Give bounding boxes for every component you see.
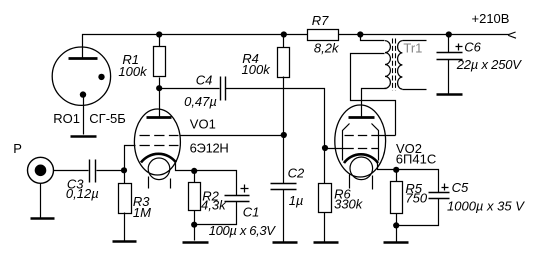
wire cathode node to C1 top <box>195 171 237 196</box>
capacitor C6 polarized <box>437 53 463 60</box>
wire R6 top <box>324 149 326 184</box>
tube VO2 cathode <box>344 154 378 163</box>
wire primary UL tap to VO2 screen <box>351 54 396 136</box>
svg-text:100k: 100k <box>118 64 148 79</box>
svg-text:+210В: +210В <box>472 11 510 26</box>
svg-text:C2: C2 <box>288 165 305 180</box>
wire VO1 heater legs <box>149 177 171 189</box>
gas tube RO1 gas dot <box>98 74 104 80</box>
resistor R4 <box>278 48 290 78</box>
svg-text:100µ x 6,3V: 100µ x 6,3V <box>209 223 276 238</box>
plus sign C1 <box>241 185 249 193</box>
wire VO2 control grid lead <box>325 148 345 150</box>
svg-text:C5: C5 <box>452 180 469 195</box>
node R4 screen C2 <box>281 132 287 138</box>
svg-text:C6: C6 <box>464 40 481 55</box>
wire C1 bottom to node <box>195 202 237 225</box>
wire secondary bottom stub <box>403 89 427 91</box>
tube VO2 beam plate left <box>343 124 350 161</box>
node R5 C5 bottom <box>393 222 399 228</box>
wire RO1 cathode <box>83 95 85 135</box>
wire R6 to ground <box>324 213 326 242</box>
wire C6 top <box>448 35 450 53</box>
gas tube RO1 envelope <box>52 47 110 105</box>
wire input jack to C3 <box>54 170 89 172</box>
wire C2 to ground <box>283 190 285 242</box>
wire VO2 heater legs <box>350 175 373 190</box>
gas tube RO1 anode <box>69 57 98 60</box>
wire C5 bottom to node <box>397 199 439 226</box>
svg-text:1000µ x 35 V: 1000µ x 35 V <box>447 198 525 213</box>
wire top rail left segment <box>83 35 308 58</box>
tube VO1 heater <box>148 158 170 180</box>
ground C2 <box>273 241 298 244</box>
wire top rail right segment <box>339 34 509 36</box>
tube VO2 screen grid <box>345 135 379 137</box>
wire R2 top <box>194 171 196 183</box>
wire C3 to grid node <box>97 170 125 172</box>
wire R4 bottom to node <box>283 77 285 135</box>
svg-text:8,2k: 8,2k <box>314 41 340 56</box>
svg-text:СГ-5Б: СГ-5Б <box>89 111 126 126</box>
svg-text:330k: 330k <box>334 197 364 212</box>
wire jack ground stub <box>40 184 42 218</box>
wire R2 ground stub <box>194 225 196 241</box>
node rail C6 <box>446 31 452 37</box>
svg-text:1M: 1M <box>133 205 151 220</box>
svg-text:Tr1: Tr1 <box>403 41 422 56</box>
input jack P <box>28 157 54 183</box>
wire R4 top <box>283 35 285 48</box>
wire C6 bottom stub <box>448 60 450 94</box>
ground R5 C5 <box>384 241 409 244</box>
terminal bar RO1 <box>71 135 97 138</box>
resistor R5 <box>391 182 403 214</box>
node VO2 cathode R5 <box>393 167 399 173</box>
tube VO2 beam plate right <box>372 124 379 161</box>
resistor R1 <box>154 47 166 77</box>
node VO1 cathode <box>191 168 197 174</box>
wire transformer primary top lead <box>361 35 385 41</box>
wire VO2 screen grid lead <box>379 135 396 137</box>
svg-text:C1: C1 <box>243 205 260 220</box>
wire R1 top <box>159 35 161 47</box>
svg-text:22µ x 250V: 22µ x 250V <box>456 57 523 72</box>
wire VO1 cathode lead <box>176 163 195 171</box>
resistor R3 <box>119 184 132 214</box>
node VO2 grid R6 <box>322 145 328 151</box>
wire secondary top stub <box>403 40 427 42</box>
wire R5 ground stub <box>396 226 398 242</box>
gas tube RO1 cathode dot <box>80 91 86 97</box>
tube VO2 anode <box>349 116 375 119</box>
tube VO1 screen grid <box>140 135 179 137</box>
wire R5 top <box>396 170 398 182</box>
svg-text:P: P <box>13 141 22 156</box>
wire R3 top <box>124 171 126 184</box>
node rail transformer <box>357 31 363 37</box>
capacitor C3 <box>90 160 96 183</box>
capacitor C5 polarized <box>429 193 450 199</box>
resistor R6 <box>319 184 332 213</box>
tube VO1 envelope <box>134 109 180 175</box>
wire node to C4 <box>160 88 220 90</box>
svg-text:RO1: RO1 <box>53 111 80 126</box>
svg-text:VO1: VO1 <box>190 116 216 131</box>
ground R2 C1 <box>183 241 209 244</box>
svg-text:6П41С: 6П41С <box>396 152 436 167</box>
ground R3 <box>113 240 137 243</box>
tube VO1 anode <box>147 116 172 119</box>
svg-text:0,47µ: 0,47µ <box>184 94 217 109</box>
svg-text:C4: C4 <box>196 73 213 88</box>
wire grid node to VO1 control grid <box>125 146 136 171</box>
svg-text:4,3k: 4,3k <box>201 198 227 213</box>
svg-text:0,12µ: 0,12µ <box>66 186 99 201</box>
svg-text:6Э12Н: 6Э12Н <box>190 140 229 155</box>
wire node to C2 <box>283 135 285 184</box>
capacitor C2 <box>271 184 297 190</box>
tube VO1 cathode <box>141 154 176 163</box>
wire R2 bottom <box>194 211 196 225</box>
svg-text:1µ: 1µ <box>289 193 304 208</box>
svg-text:R7: R7 <box>312 13 329 28</box>
plus sign C6 <box>456 44 463 51</box>
wire VO1 screen grid to node <box>180 135 284 137</box>
capacitor C1 polarized <box>225 196 250 202</box>
resistor R7 <box>308 30 339 41</box>
transformer Tr1 core <box>393 39 396 91</box>
wire VO2 cathode lead <box>378 163 397 170</box>
node rail R1 <box>156 31 162 37</box>
transformer Tr1 primary winding <box>385 41 390 89</box>
tube VO2 control grid <box>345 148 379 150</box>
wire primary bottom to VO2 anode <box>362 89 387 117</box>
resistor R2 <box>189 183 201 211</box>
wire VO1 anode lead <box>159 89 161 117</box>
wire cathode node to C5 top <box>397 170 439 193</box>
svg-text:100k: 100k <box>242 62 272 77</box>
wire R1 bottom to node <box>159 78 161 89</box>
terminal bar C6 <box>437 93 463 96</box>
wire R5 bottom <box>396 214 398 226</box>
tube VO2 heater <box>350 157 373 180</box>
transformer Tr1 secondary winding <box>398 41 403 89</box>
wire R3 to ground <box>124 213 126 241</box>
ground jack <box>31 217 55 220</box>
node R2 C1 bottom <box>191 222 197 228</box>
connector arrow +210V <box>508 32 516 38</box>
plus sign C5 <box>442 184 449 191</box>
wire C4 to VO2 grid node <box>226 89 325 149</box>
ground R6 <box>314 241 339 244</box>
capacitor C4 <box>221 77 226 101</box>
node VO1 anode C4 <box>156 85 162 91</box>
node VO1 grid <box>121 167 127 173</box>
svg-text:750: 750 <box>405 191 427 206</box>
tube VO1 control grid <box>140 145 179 147</box>
tube VO2 envelope <box>335 105 386 177</box>
node rail R4 <box>281 31 287 37</box>
